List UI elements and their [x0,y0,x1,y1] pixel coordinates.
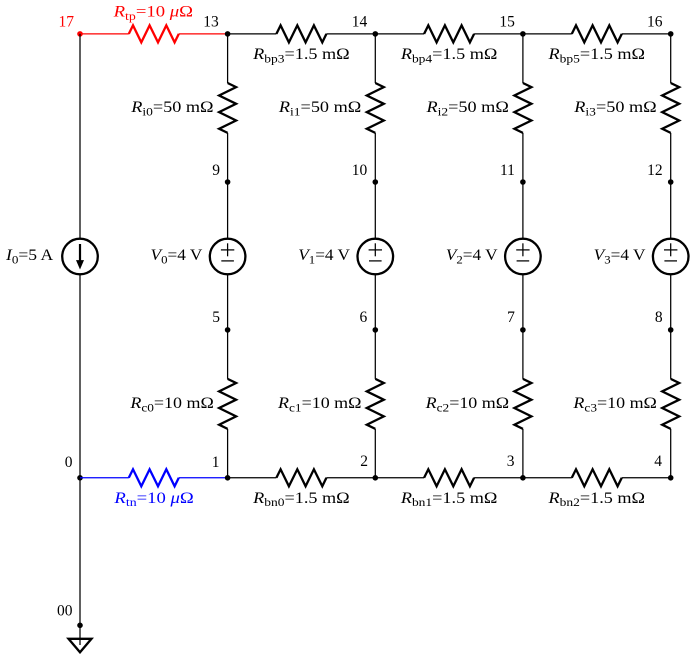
label I0=5 A [5,246,53,266]
node label 13 [203,14,219,31]
svg-text:11: 11 [500,162,515,179]
wire Rtn to node 1 [179,477,228,479]
ground [69,639,92,653]
resistor Rtp (10 uOhm, red) [129,25,179,42]
node label 6 [359,309,367,326]
label Rbp4=1.5 mOhm [400,45,498,65]
resistor Rbp4 (1.5 mOhm) [424,25,474,42]
svg-text:4: 4 [654,453,662,470]
svg-text:5: 5 [212,309,220,326]
voltage source V2 (4 V) [505,239,541,275]
wire Rc0 to node 1 [227,429,229,478]
resistor Ri1 (50 mOhm) [367,83,384,133]
resistor Rbn1 (1.5 mOhm) [424,469,474,486]
resistor Rc3 (10 mOhm) [662,379,679,429]
wire node 9 down to voltage source V0 [227,182,229,239]
label V2=4 V [446,246,498,266]
svg-text:Rc0​=10 mΩ: Rc0​=10 mΩ [129,394,214,414]
wire Ri2 to node 11 [522,133,524,182]
node 16 [668,31,674,37]
svg-text:Rbp4​=1.5 mΩ: Rbp4​=1.5 mΩ [400,45,498,65]
label Rbn2=1.5 mOhm [547,489,645,509]
node label 9 [212,162,220,179]
wire node 6 down to Rc1 [374,330,376,379]
node label 3 [507,453,515,470]
wire node 5 down to Rc0 [227,330,229,379]
resistor Rtn (10 uOhm, blue) [129,469,179,486]
svg-text:9: 9 [212,162,220,179]
wire Ri3 to node 12 [670,133,672,182]
svg-text:17: 17 [59,14,75,31]
node 12 [668,179,674,185]
wire node 17 to Rtp [80,33,129,35]
resistor Ri0 (50 mOhm) [219,83,236,133]
label Rbp5=1.5 mOhm [547,45,645,65]
label Rtp=10 uOhm [113,3,193,23]
svg-text:Rc3​=10 mΩ: Rc3​=10 mΩ [572,394,657,414]
node 8 [668,327,674,333]
wire node 12 down to voltage source V3 [670,182,672,239]
resistor Ri3 (50 mOhm) [662,83,679,133]
svg-text:2: 2 [360,453,368,470]
node label 17 [59,14,75,31]
svg-text:I0​=5 A: I0​=5 A [5,246,53,266]
svg-text:V3​=4 V: V3​=4 V [594,246,646,266]
node 9 [225,179,231,185]
wire current source I0 down to node 0 [79,274,81,478]
node label 00 [57,603,73,620]
resistor Rbp5 (1.5 mOhm) [572,25,622,42]
wire node 15 to Rbp5 [523,33,572,35]
label Rtn=10 uOhm [113,489,193,509]
label Rc0=10 mOhm [129,394,214,414]
wire Rtp to node 13 [179,33,228,35]
wire Rbp4 to node 15 [474,33,523,35]
wire node 0 to Rtn [80,477,129,479]
svg-text:Rbn0​=1.5 mΩ: Rbn0​=1.5 mΩ [252,489,350,509]
label Ri1=50 mOhm [278,98,361,118]
node 2 [373,475,379,481]
label Rc1=10 mOhm [277,394,362,414]
wire Rc3 to node 4 [670,429,672,478]
node label 1 [212,454,220,471]
node label 0 [65,454,73,471]
wire node 15 down to Ri2 [522,34,524,83]
wire Rbp5 to node 16 [622,33,671,35]
wire node 7 down to Rc2 [522,330,524,379]
wire node 2 to Rbn1 [375,477,424,479]
wire voltage source V3 to node 8 [670,274,672,330]
wire node 10 down to voltage source V1 [374,182,376,239]
node 17 [77,31,83,37]
wire node 14 down to Ri1 [374,34,376,83]
svg-text:16: 16 [647,14,663,31]
resistor Rc2 (10 mOhm) [514,379,531,429]
label Rc3=10 mOhm [572,394,657,414]
node label 15 [499,14,515,31]
svg-text:Ri1​=50 mΩ: Ri1​=50 mΩ [278,98,361,118]
svg-text:Rbp3​=1.5 mΩ: Rbp3​=1.5 mΩ [252,45,350,65]
resistor Rbp3 (1.5 mOhm) [276,25,326,42]
svg-text:7: 7 [507,309,515,326]
wire Rc1 to node 2 [374,429,376,478]
wire Rc2 to node 3 [522,429,524,478]
svg-text:6: 6 [359,309,367,326]
node 1 [225,475,231,481]
wire Rbp3 to node 14 [326,33,375,35]
node 5 [225,327,231,333]
wire node 13 to Rbp3 [228,33,277,35]
node 0 [77,475,83,481]
svg-text:Rc2​=10 mΩ: Rc2​=10 mΩ [425,394,510,414]
resistor Rc0 (10 mOhm) [219,379,236,429]
node 00 [77,623,83,629]
wire node 13 down to Ri0 [227,34,229,83]
label V1=4 V [298,246,350,266]
node label 14 [352,14,368,31]
resistor Rbn2 (1.5 mOhm) [572,469,622,486]
resistor Ri2 (50 mOhm) [514,83,531,133]
svg-text:Rc1​=10 mΩ: Rc1​=10 mΩ [277,394,362,414]
svg-text:Ri2​=50 mΩ: Ri2​=50 mΩ [425,98,508,118]
node 6 [373,327,379,333]
node label 11 [500,162,515,179]
label Ri3=50 mOhm [573,98,656,118]
node 15 [520,31,526,37]
svg-text:8: 8 [655,309,663,326]
svg-text:Rtp​=10 μΩ: Rtp​=10 μΩ [113,3,193,23]
label Ri0=50 mOhm [130,98,213,118]
wire node 17 down to current source I0 [79,34,81,239]
svg-text:V1​=4 V: V1​=4 V [298,246,350,266]
wire node 14 to Rbp4 [375,33,424,35]
svg-text:15: 15 [499,14,515,31]
svg-text:0: 0 [65,454,73,471]
label V0=4 V [151,246,203,266]
label V3=4 V [594,246,646,266]
wire voltage source V0 to node 5 [227,274,229,330]
wire node 00 to ground [79,625,81,645]
svg-text:Ri0​=50 mΩ: Ri0​=50 mΩ [130,98,213,118]
node 11 [520,179,526,185]
svg-text:10: 10 [352,162,368,179]
node label 8 [655,309,663,326]
label Rbn0=1.5 mOhm [252,489,350,509]
node label 16 [647,14,663,31]
wire voltage source V1 to node 6 [374,274,376,330]
wire node 3 to Rbn2 [523,477,572,479]
node 10 [373,179,379,185]
node 7 [520,327,526,333]
wire Rbn2 to node 4 [622,477,671,479]
wire Rbn1 to node 3 [474,477,523,479]
node 13 [225,31,231,37]
wire node 11 down to voltage source V2 [522,182,524,239]
voltage source V0 (4 V) [210,239,246,275]
wire node 1 to Rbn0 [228,477,277,479]
node label 5 [212,309,220,326]
node 3 [520,475,526,481]
wire node 0 down to node 00 [79,478,81,626]
label Rbn1=1.5 mOhm [400,489,498,509]
svg-text:3: 3 [507,453,515,470]
node 4 [668,475,674,481]
svg-text:Rbn2​=1.5 mΩ: Rbn2​=1.5 mΩ [547,489,645,509]
wire node 16 down to Ri3 [670,34,672,83]
label Rbp3=1.5 mOhm [252,45,350,65]
svg-text:1: 1 [212,454,220,471]
svg-text:13: 13 [203,14,219,31]
node label 12 [647,162,663,179]
node label 7 [507,309,515,326]
wire Ri1 to node 10 [374,133,376,182]
svg-text:Rtn​=10 μΩ: Rtn​=10 μΩ [113,489,193,509]
label Ri2=50 mOhm [425,98,508,118]
node 14 [373,31,379,37]
label Rc2=10 mOhm [425,394,510,414]
node label 4 [654,453,662,470]
svg-text:00: 00 [57,603,73,620]
wire node 8 down to Rc3 [670,330,672,379]
wire voltage source V2 to node 7 [522,274,524,330]
svg-text:14: 14 [352,14,368,31]
svg-text:Rbn1​=1.5 mΩ: Rbn1​=1.5 mΩ [400,489,498,509]
svg-text:Ri3​=50 mΩ: Ri3​=50 mΩ [573,98,656,118]
node label 2 [360,453,368,470]
node label 10 [352,162,368,179]
wire Rbn0 to node 2 [326,477,375,479]
resistor Rc1 (10 mOhm) [367,379,384,429]
current source I0 (5 A) [62,239,98,275]
resistor Rbn0 (1.5 mOhm) [276,469,326,486]
svg-text:V0​=4 V: V0​=4 V [151,246,203,266]
svg-text:Rbp5​=1.5 mΩ: Rbp5​=1.5 mΩ [547,45,645,65]
wire Ri0 to node 9 [227,133,229,182]
svg-text:12: 12 [647,162,663,179]
voltage source V1 (4 V) [358,239,394,275]
voltage source V3 (4 V) [653,239,689,275]
svg-text:V2​=4 V: V2​=4 V [446,246,498,266]
